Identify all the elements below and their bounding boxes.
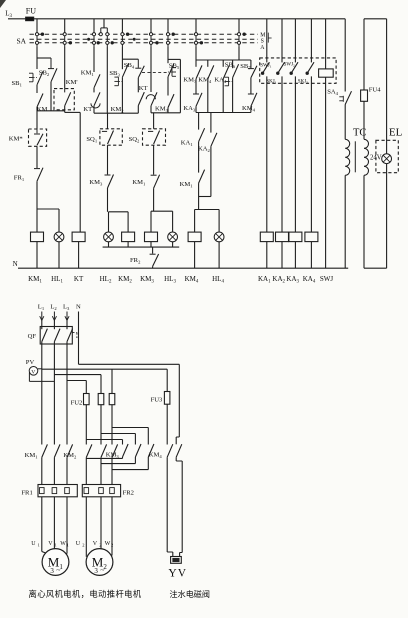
svg-text:U: U bbox=[31, 541, 36, 547]
svg-text:3: 3 bbox=[50, 567, 54, 575]
svg-text:~: ~ bbox=[56, 566, 60, 575]
svg-text:U: U bbox=[76, 541, 81, 547]
svg-text:FU2: FU2 bbox=[71, 400, 83, 407]
svg-text:1: 1 bbox=[55, 543, 57, 548]
svg-text:PV: PV bbox=[26, 359, 35, 366]
svg-text:V: V bbox=[93, 541, 98, 547]
svg-text:SKJ2: SKJ2 bbox=[298, 80, 308, 85]
svg-text:2: 2 bbox=[111, 543, 113, 548]
svg-text:KM*: KM* bbox=[9, 136, 23, 143]
svg-text:KT: KT bbox=[139, 85, 148, 92]
svg-text:W: W bbox=[105, 541, 111, 547]
svg-text:2: 2 bbox=[82, 543, 84, 548]
svg-text:KM': KM' bbox=[66, 79, 78, 86]
svg-text:V: V bbox=[48, 541, 53, 547]
svg-text:1: 1 bbox=[67, 543, 69, 548]
svg-text:3: 3 bbox=[94, 567, 98, 575]
svg-text:SWJ: SWJ bbox=[320, 275, 334, 283]
svg-text:离心风机电机，电动推杆电机: 离心风机电机，电动推杆电机 bbox=[29, 589, 142, 599]
svg-text:SA: SA bbox=[17, 37, 27, 46]
svg-text:W: W bbox=[60, 541, 66, 547]
svg-text:FU4: FU4 bbox=[369, 87, 381, 94]
svg-text:S: S bbox=[261, 39, 264, 45]
svg-text:SWJ2: SWJ2 bbox=[284, 62, 295, 67]
svg-text:SWJ1: SWJ1 bbox=[260, 64, 271, 69]
svg-text:SKJ1: SKJ1 bbox=[266, 80, 276, 85]
svg-text:QF: QF bbox=[28, 333, 37, 340]
svg-text:EL: EL bbox=[389, 127, 403, 139]
svg-text:N: N bbox=[76, 304, 81, 311]
svg-text:FR2: FR2 bbox=[123, 490, 134, 497]
svg-text:KT: KT bbox=[83, 106, 92, 113]
svg-text:KT: KT bbox=[74, 275, 84, 283]
svg-text:FR1: FR1 bbox=[21, 490, 32, 497]
svg-text:24V: 24V bbox=[370, 155, 382, 162]
svg-text:FU3: FU3 bbox=[151, 397, 163, 404]
svg-text:注水电磁阀: 注水电磁阀 bbox=[170, 589, 210, 599]
svg-text:KM: KM bbox=[37, 106, 48, 113]
svg-text:1: 1 bbox=[38, 543, 40, 548]
svg-text:N: N bbox=[13, 260, 18, 268]
svg-text:~: ~ bbox=[100, 566, 104, 575]
svg-text:FU: FU bbox=[26, 7, 36, 16]
svg-text:2: 2 bbox=[99, 543, 101, 548]
svg-text:V: V bbox=[31, 369, 35, 375]
svg-text:YV: YV bbox=[168, 568, 187, 580]
